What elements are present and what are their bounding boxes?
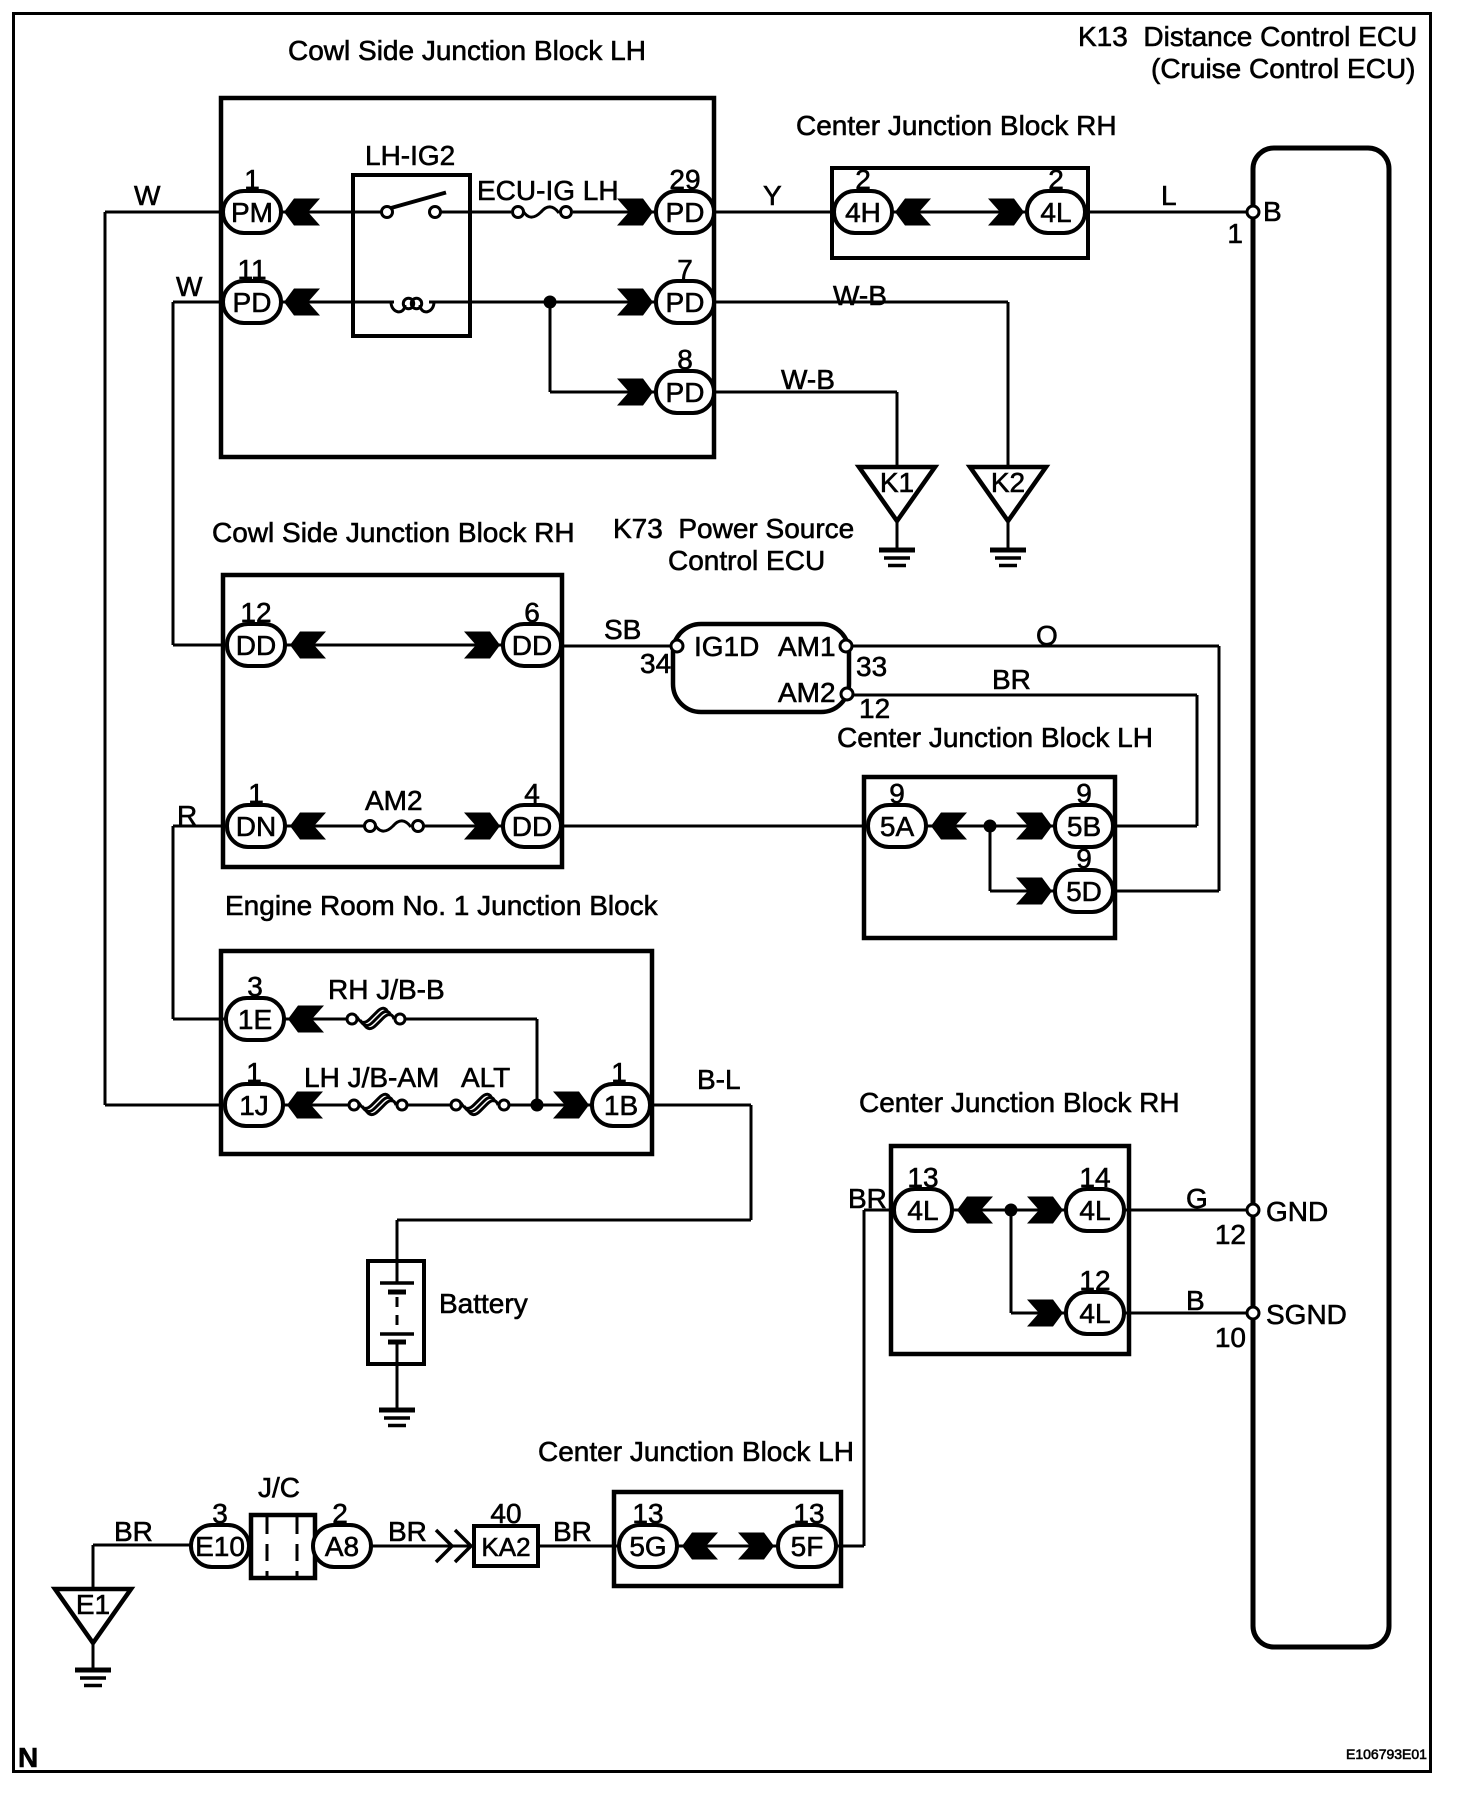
svg-text:Engine Room No. 1 Junction Blo: Engine Room No. 1 Junction Block	[225, 890, 659, 921]
svg-text:K1: K1	[880, 467, 914, 498]
svg-text:PD: PD	[666, 287, 705, 318]
svg-text:Center Junction Block RH: Center Junction Block RH	[859, 1087, 1180, 1118]
svg-text:Cowl Side Junction Block RH: Cowl Side Junction Block RH	[212, 517, 575, 548]
svg-text:5F: 5F	[791, 1531, 824, 1562]
svg-text:6: 6	[524, 597, 540, 628]
svg-text:10: 10	[1215, 1322, 1246, 1353]
svg-text:1J: 1J	[239, 1090, 269, 1121]
svg-text:14: 14	[1079, 1162, 1110, 1193]
svg-text:Center Junction Block RH: Center Junction Block RH	[796, 110, 1117, 141]
svg-text:ALT: ALT	[461, 1062, 510, 1093]
svg-text:K13 Distance Control ECU: K13 Distance Control ECU	[1078, 21, 1417, 52]
svg-text:L: L	[1161, 180, 1177, 211]
svg-text:Center Junction Block LH: Center Junction Block LH	[837, 722, 1153, 753]
svg-text:BR: BR	[553, 1516, 592, 1547]
svg-text:DD: DD	[236, 630, 276, 661]
svg-text:Control ECU: Control ECU	[668, 545, 825, 576]
svg-text:1: 1	[611, 1057, 627, 1088]
svg-text:4L: 4L	[1079, 1195, 1110, 1226]
svg-text:12: 12	[240, 597, 271, 628]
svg-text:DN: DN	[236, 811, 276, 842]
svg-text:9: 9	[1076, 843, 1092, 874]
svg-text:PD: PD	[233, 287, 272, 318]
svg-text:2: 2	[855, 164, 871, 195]
svg-text:DD: DD	[512, 630, 552, 661]
svg-text:1B: 1B	[604, 1090, 638, 1121]
svg-text:B-L: B-L	[697, 1064, 741, 1095]
svg-text:5D: 5D	[1066, 876, 1102, 907]
svg-text:4L: 4L	[1040, 197, 1071, 228]
svg-text:PM: PM	[231, 197, 273, 228]
svg-text:W: W	[176, 271, 203, 302]
svg-text:BR: BR	[388, 1516, 427, 1547]
svg-text:29: 29	[669, 164, 700, 195]
svg-text:W-B: W-B	[833, 280, 887, 311]
svg-text:4: 4	[524, 778, 540, 809]
svg-text:4H: 4H	[845, 197, 881, 228]
svg-text:2: 2	[332, 1498, 348, 1529]
svg-text:1: 1	[1227, 218, 1243, 249]
svg-text:33: 33	[856, 651, 887, 682]
svg-text:1: 1	[246, 1057, 262, 1088]
svg-text:5A: 5A	[880, 811, 915, 842]
svg-text:W: W	[134, 180, 161, 211]
svg-text:GND: GND	[1266, 1196, 1328, 1227]
svg-text:B: B	[1263, 196, 1282, 227]
svg-text:1: 1	[244, 164, 260, 195]
svg-text:3: 3	[247, 971, 263, 1002]
svg-text:4L: 4L	[907, 1195, 938, 1226]
svg-text:E1: E1	[76, 1589, 110, 1620]
svg-text:BR: BR	[992, 664, 1031, 695]
svg-text:LH-IG2: LH-IG2	[365, 140, 455, 171]
svg-text:E10: E10	[195, 1531, 245, 1562]
svg-text:40: 40	[490, 1498, 521, 1529]
svg-text:N: N	[18, 1742, 38, 1773]
svg-text:13: 13	[907, 1162, 938, 1193]
svg-text:LH J/B-AM: LH J/B-AM	[304, 1062, 439, 1093]
svg-text:B: B	[1186, 1285, 1205, 1316]
svg-text:G: G	[1186, 1183, 1208, 1214]
svg-text:5G: 5G	[629, 1531, 666, 1562]
svg-text:Center Junction Block LH: Center Junction Block LH	[538, 1436, 854, 1467]
svg-text:1: 1	[248, 778, 264, 809]
svg-text:AM1: AM1	[778, 631, 836, 662]
svg-text:K2: K2	[991, 467, 1025, 498]
svg-text:AM2: AM2	[778, 677, 836, 708]
svg-text:AM2: AM2	[365, 785, 423, 816]
svg-text:11: 11	[237, 254, 266, 285]
svg-text:12: 12	[1215, 1219, 1246, 1250]
svg-text:KA2: KA2	[481, 1532, 530, 1562]
svg-text:4L: 4L	[1079, 1298, 1110, 1329]
svg-text:SGND: SGND	[1266, 1299, 1347, 1330]
svg-text:Cowl Side Junction Block LH: Cowl Side Junction Block LH	[288, 35, 646, 66]
svg-text:O: O	[1036, 620, 1058, 651]
svg-text:DD: DD	[512, 811, 552, 842]
svg-text:(Cruise Control ECU): (Cruise Control ECU)	[1151, 53, 1416, 84]
svg-text:IG1D: IG1D	[694, 631, 759, 662]
svg-text:ECU-IG LH: ECU-IG LH	[477, 175, 619, 206]
svg-text:12: 12	[1079, 1265, 1110, 1296]
svg-text:W-B: W-B	[781, 364, 835, 395]
svg-text:5B: 5B	[1067, 811, 1101, 842]
svg-text:9: 9	[1076, 778, 1092, 809]
svg-text:J/C: J/C	[258, 1472, 300, 1503]
svg-text:BR: BR	[114, 1516, 153, 1547]
svg-text:34: 34	[640, 648, 671, 679]
svg-text:Y: Y	[763, 180, 782, 211]
svg-text:Battery: Battery	[439, 1288, 528, 1319]
svg-text:A8: A8	[325, 1531, 359, 1562]
svg-text:1E: 1E	[238, 1004, 272, 1035]
svg-text:3: 3	[212, 1498, 228, 1529]
svg-text:BR: BR	[848, 1183, 887, 1214]
svg-text:13: 13	[632, 1498, 663, 1529]
svg-text:12: 12	[859, 693, 890, 724]
svg-text:SB: SB	[604, 614, 641, 645]
svg-text:E106793E01: E106793E01	[1346, 1746, 1427, 1762]
svg-text:9: 9	[889, 778, 905, 809]
svg-text:13: 13	[793, 1498, 824, 1529]
svg-text:7: 7	[677, 254, 693, 285]
svg-text:8: 8	[677, 344, 693, 375]
svg-text:2: 2	[1048, 164, 1064, 195]
svg-text:R: R	[177, 800, 197, 831]
svg-text:RH J/B-B: RH J/B-B	[328, 974, 445, 1005]
svg-text:PD: PD	[666, 197, 705, 228]
svg-text:K73 Power Source: K73 Power Source	[613, 513, 854, 544]
svg-text:PD: PD	[666, 377, 705, 408]
